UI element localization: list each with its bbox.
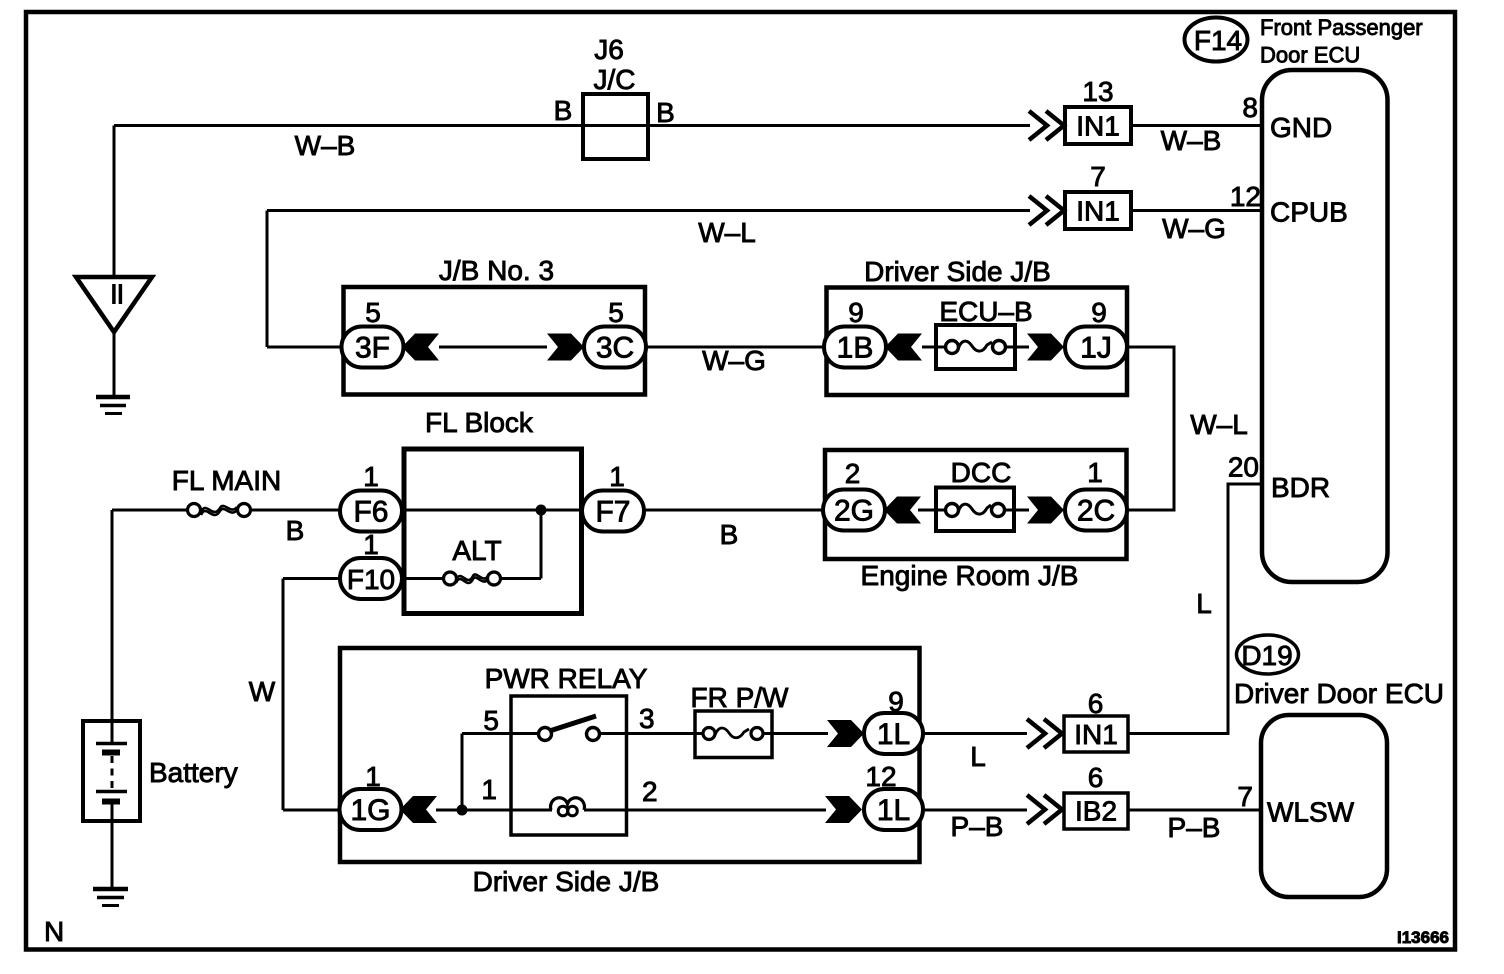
wire W from F10 to 1G [283, 579, 340, 811]
svg-text:B: B [286, 515, 305, 546]
svg-text:1B: 1B [837, 332, 874, 365]
svg-text:W: W [249, 676, 276, 707]
fusible link FL MAIN symbol [188, 504, 251, 517]
svg-text:IN1: IN1 [1074, 719, 1118, 750]
wire inside FL Block F6 to F7 [402, 509, 583, 512]
connector cavity F6 [340, 491, 402, 532]
svg-text:1: 1 [363, 461, 379, 492]
wire P-B from IB2 to WLSW pin 7 [1128, 809, 1261, 812]
svg-text:B: B [554, 95, 573, 126]
ground symbol II (body ground triangle) [76, 277, 152, 414]
connector cavity F7 [582, 491, 644, 532]
connector cavity 1B [824, 327, 886, 368]
svg-text:W–L: W–L [698, 217, 756, 248]
svg-text:ALT: ALT [452, 535, 501, 566]
svg-text:1: 1 [365, 761, 381, 792]
fuse ECU-B element [946, 341, 1006, 354]
svg-text:CPUB: CPUB [1270, 197, 1348, 228]
wire drop from CPUB row to 3F [266, 211, 269, 348]
connector block IN1 (pin 13) box [1065, 107, 1131, 144]
svg-text:ECU–B: ECU–B [939, 296, 1032, 327]
arrow at 1J (right) [1027, 334, 1064, 361]
wire 2G arrow to DCC fuse [918, 509, 946, 512]
relay switch contact pins 5-3 [539, 716, 600, 741]
svg-text:Driver Side J/B: Driver Side J/B [864, 256, 1051, 287]
chevrons into IN1 pin 6 [1027, 719, 1062, 748]
wire B FL MAIN to F6 [249, 509, 341, 512]
svg-text:1: 1 [363, 529, 379, 560]
svg-text:L: L [970, 741, 986, 772]
svg-text:9: 9 [848, 297, 864, 328]
chevrons into IN1 pin 13 [1029, 111, 1064, 140]
svg-text:12: 12 [865, 761, 896, 792]
junction node in FL Block [536, 505, 547, 516]
svg-text:3F: 3F [355, 332, 390, 365]
arrow at 1G (left) [400, 796, 437, 823]
connector block IB2 (pin 6) box [1064, 793, 1128, 829]
svg-text:Door ECU: Door ECU [1260, 43, 1360, 68]
wire battery negative to ground [111, 803, 114, 887]
svg-text:B: B [656, 97, 675, 128]
junction connector J6 J/C box [583, 94, 648, 159]
connector cavity 2C [1065, 490, 1127, 531]
svg-text:5: 5 [365, 297, 381, 328]
wire W-B from IN1 to GND pin 8 [1131, 124, 1262, 127]
svg-text:D19: D19 [1241, 640, 1292, 671]
fuse DCC element [946, 504, 1005, 517]
connector cavity 1J [1065, 327, 1127, 368]
wire into relay pin 5 [462, 732, 538, 735]
wire ALT branch vertical to junction [540, 510, 543, 579]
arrow at 1L pin 12 (right) [825, 796, 862, 823]
svg-text:GND: GND [1270, 112, 1332, 143]
junction block box Driver Side J/B (upper) [827, 288, 1128, 396]
svg-text:W–L: W–L [1190, 409, 1248, 440]
wire W-L from 1J down to 2C [1126, 347, 1174, 510]
svg-text:1: 1 [1087, 457, 1103, 488]
svg-text:F7: F7 [595, 496, 630, 529]
svg-text:Engine Room J/B: Engine Room J/B [861, 560, 1079, 591]
svg-text:BDR: BDR [1271, 472, 1330, 503]
svg-text:I13666: I13666 [1397, 928, 1449, 947]
wire battery cell dashed link [111, 756, 114, 789]
svg-text:P–B: P–B [1168, 812, 1221, 843]
svg-text:9: 9 [1091, 297, 1107, 328]
svg-text:J/B No. 3: J/B No. 3 [439, 255, 554, 286]
fuse DCC holder box [936, 488, 1014, 532]
relay K1 PWR RELAY box [511, 696, 627, 835]
chevrons into IB2 pin 6 [1027, 795, 1062, 824]
svg-text:7: 7 [1090, 161, 1106, 192]
wire W-L CPUB row horizontal [267, 209, 1030, 212]
junction block box Driver Side J/B (lower) [340, 648, 920, 862]
svg-text:J/C: J/C [594, 64, 636, 95]
connector block IN1 (pin 7) box [1065, 192, 1131, 229]
fuse FR P/W holder box [695, 711, 772, 758]
svg-text:J6: J6 [594, 34, 624, 65]
svg-text:3C: 3C [596, 332, 634, 365]
svg-text:F10: F10 [347, 564, 395, 595]
wire ALT fuse to junction branch [500, 577, 541, 580]
svg-text:13: 13 [1082, 76, 1113, 107]
wire W-B ground run to J6 and IN1 (GND row) [114, 124, 1030, 127]
wire L from 1L to IN1 chevrons [921, 732, 1027, 735]
arrow at 2C (right) [1027, 497, 1064, 524]
wire DCC fuse to 2C arrow [1004, 509, 1029, 512]
svg-text:1: 1 [609, 461, 625, 492]
svg-text:1L: 1L [877, 794, 910, 827]
ground symbol below battery [93, 889, 128, 906]
connector label D19 ellipse [1237, 635, 1299, 674]
svg-text:2G: 2G [834, 495, 874, 528]
connector cavity 3C [584, 327, 646, 368]
svg-text:IB2: IB2 [1075, 796, 1117, 827]
svg-text:IN1: IN1 [1076, 111, 1120, 142]
wire relay coil pin 2 to 1L arrow [584, 809, 826, 812]
svg-text:PWR RELAY: PWR RELAY [485, 663, 648, 694]
fuse ECU-B holder box [936, 325, 1015, 369]
svg-text:2C: 2C [1077, 495, 1115, 528]
svg-text:B: B [720, 519, 739, 550]
wire B battery feed to FL MAIN [112, 509, 189, 512]
connector cavity 1G [340, 789, 402, 830]
svg-text:WLSW: WLSW [1267, 797, 1355, 828]
arrow at 3C (right) [547, 334, 584, 361]
svg-text:IN1: IN1 [1076, 196, 1120, 227]
wire inside J/B No.3 between arrows [439, 346, 547, 349]
svg-text:5: 5 [483, 705, 499, 736]
svg-text:6: 6 [1088, 688, 1104, 719]
svg-text:1L: 1L [877, 718, 910, 751]
relay coil pins 1-2 [551, 798, 585, 816]
svg-text:W–B: W–B [295, 130, 356, 161]
svg-text:7: 7 [1237, 781, 1253, 812]
chevrons into IN1 pin 7 [1029, 196, 1064, 225]
wire relay pin 5 branch [461, 734, 464, 811]
arrow at 1B (left) [885, 334, 922, 361]
ECU U2 Driver Door ECU body [1261, 715, 1387, 897]
svg-text:W–G: W–G [1162, 213, 1226, 244]
svg-text:FL Block: FL Block [425, 407, 534, 438]
wire F10 to ALT fuse [402, 577, 444, 580]
connector cavity 3F [342, 327, 404, 368]
svg-text:2: 2 [845, 458, 861, 489]
battery BAT case [83, 721, 140, 821]
svg-text:F6: F6 [353, 496, 388, 529]
svg-text:Driver Side J/B: Driver Side J/B [473, 866, 660, 897]
wire battery positive drop [111, 510, 114, 743]
arrow at 3F (left) [402, 334, 439, 361]
wire ECU-B fuse to 1J arrow [1005, 346, 1029, 349]
wire W-G from 3C to 1B [646, 346, 824, 349]
svg-text:20: 20 [1228, 452, 1259, 483]
connector cavity 1L pin 9 [864, 713, 923, 754]
svg-text:5: 5 [608, 297, 624, 328]
wire into 3F [267, 346, 343, 349]
svg-text:FL MAIN: FL MAIN [172, 465, 281, 496]
svg-text:9: 9 [888, 686, 904, 717]
svg-text:W–G: W–G [702, 345, 766, 376]
svg-text:Driver Door ECU: Driver Door ECU [1234, 678, 1444, 709]
wire W-B drop to body ground II [113, 126, 116, 278]
battery BAT internal plates [96, 744, 127, 802]
svg-text:F14: F14 [1194, 25, 1242, 56]
svg-text:DCC: DCC [951, 457, 1012, 488]
wire relay pin 3 to FR P/W [600, 732, 703, 735]
ECU U1 Front Passenger Door ECU body [1262, 70, 1388, 582]
fusible link block FL Block box [404, 449, 582, 614]
svg-text:3: 3 [639, 703, 655, 734]
connector cavity 1L pin 12 [864, 789, 923, 830]
wire P-B from 1L to IB2 chevrons [921, 809, 1027, 812]
connector cavity F10 [340, 558, 402, 599]
svg-text:FR P/W: FR P/W [691, 682, 790, 713]
svg-text:8: 8 [1242, 92, 1258, 123]
fusible link ALT symbol [444, 572, 501, 585]
junction block box J/B No. 3 [344, 287, 646, 395]
connector block IN1 (pin 6) box [1064, 716, 1128, 752]
svg-text:L: L [1196, 588, 1212, 619]
svg-text:N: N [44, 916, 64, 947]
svg-text:6: 6 [1088, 762, 1104, 793]
wire 1B arrow to ECU-B fuse [922, 346, 946, 349]
arrow at 1L pin 9 (right) [827, 720, 864, 747]
svg-text:Battery: Battery [149, 757, 238, 788]
junction block box Engine Room J/B [825, 450, 1127, 559]
wire W-G from IN1 to CPUB pin 12 [1131, 209, 1262, 212]
svg-text:2: 2 [642, 776, 658, 807]
fuse FR P/W element [703, 728, 763, 740]
svg-text:1: 1 [481, 774, 497, 805]
wire L from IN1 to BDR pin 20 [1128, 484, 1262, 734]
wire B from F7 to 2G [644, 509, 824, 512]
arrow at 2G (left) [884, 497, 921, 524]
svg-text:P–B: P–B [951, 811, 1004, 842]
wire 1G arrow to relay coil pin 1 [436, 809, 552, 812]
junction node at relay pins 1/5 branch [457, 805, 468, 816]
wire FR P/W to 1L arrow [763, 732, 828, 735]
connector cavity 2G [823, 490, 885, 531]
svg-text:1G: 1G [350, 794, 390, 827]
svg-text:12: 12 [1230, 181, 1261, 212]
svg-text:1J: 1J [1080, 332, 1112, 365]
connector label F14 ellipse [1185, 18, 1248, 62]
svg-text:W–B: W–B [1161, 125, 1222, 156]
svg-text:Front Passenger: Front Passenger [1260, 15, 1423, 40]
